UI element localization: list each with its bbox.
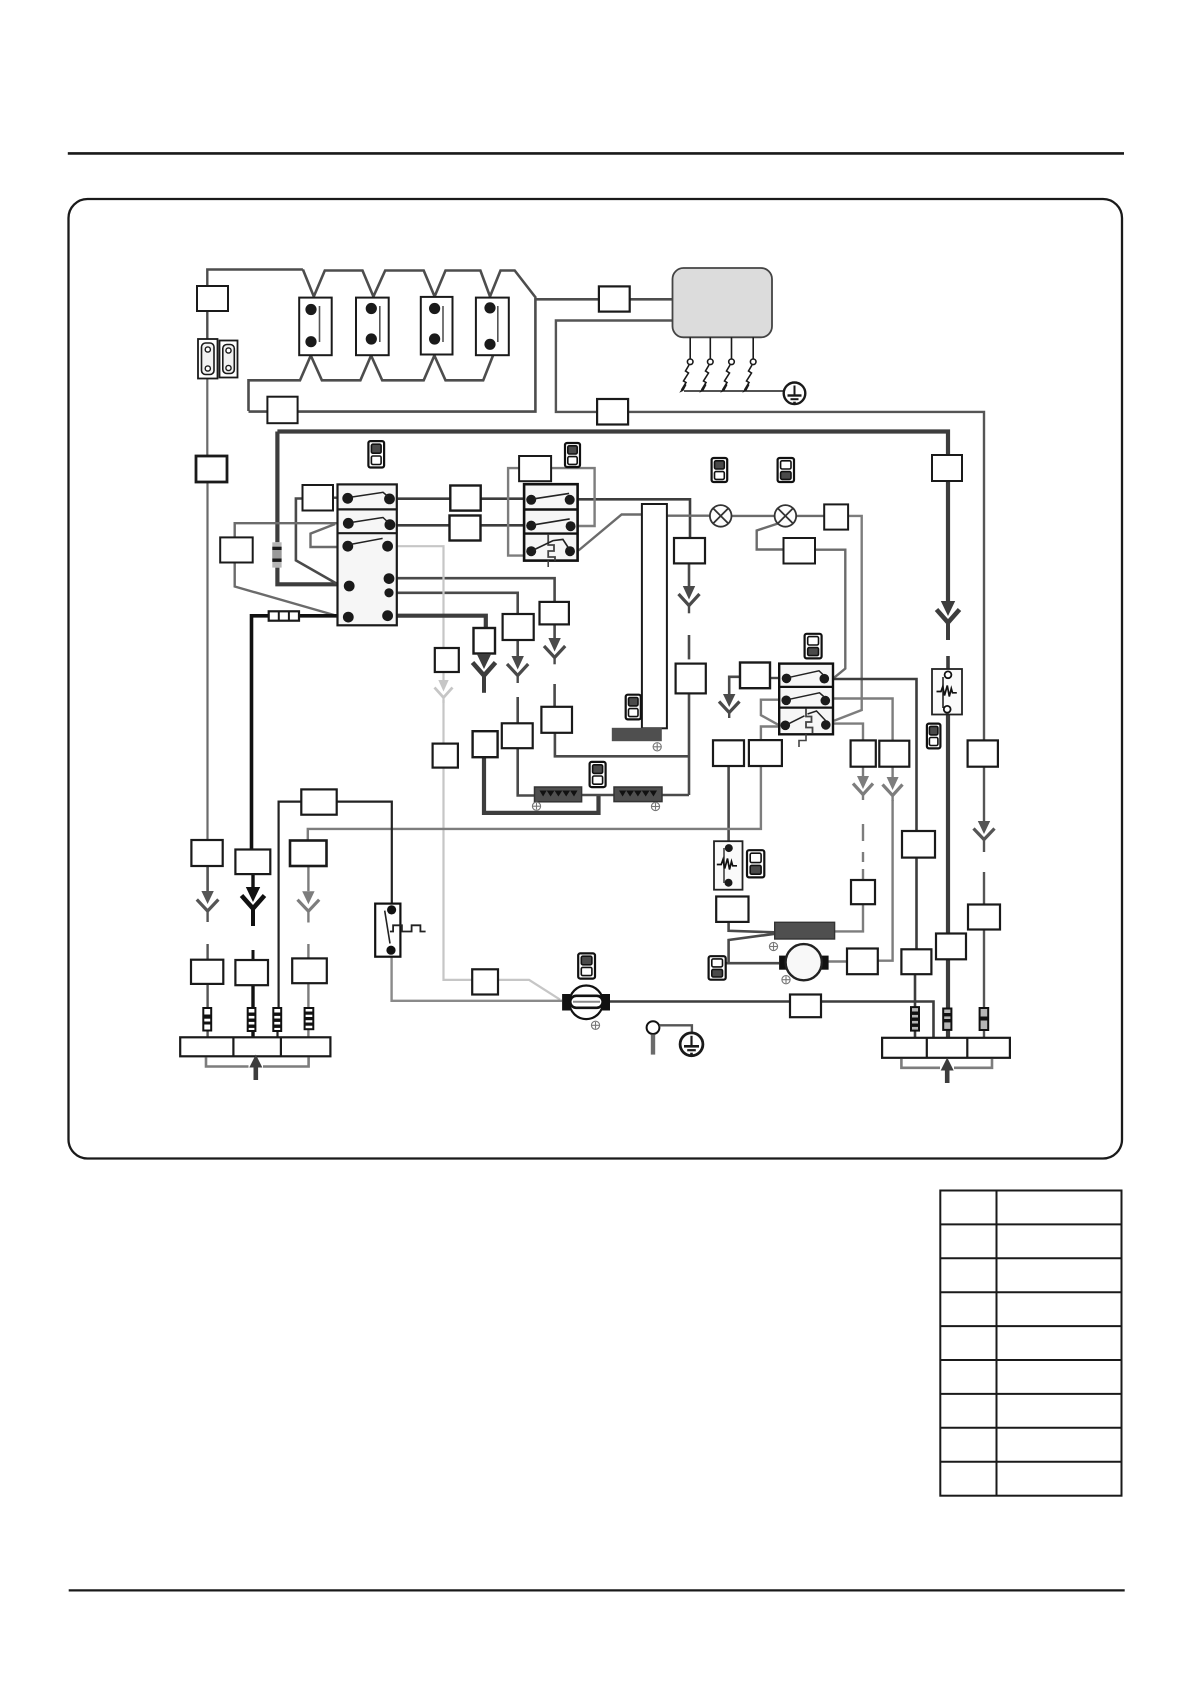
plug icon P11: [578, 953, 595, 978]
relay R1 main block: [338, 484, 397, 625]
wire grey feed relay1 row2: [235, 523, 338, 616]
wire thick down to arrow: [946, 481, 950, 601]
arrow connector light grey: [435, 680, 453, 703]
fuse F2: [248, 1008, 256, 1031]
arrow connector col2 thick black: [242, 887, 265, 926]
connector box light grey upper: [435, 648, 459, 672]
connector box A relay1-relay2 row1: [450, 486, 480, 511]
wire filament box down to heater2: [688, 563, 691, 586]
heater element H2: [614, 787, 662, 802]
connector box ECU pin2 line: [597, 399, 628, 425]
connector box C1 top-left: [197, 286, 228, 311]
arrow connector x554: [544, 638, 565, 664]
wire lamp line across: [666, 515, 710, 517]
fuse plate pair: [198, 339, 238, 379]
ground screw sender: [591, 1021, 600, 1029]
plug icon P7: [590, 762, 606, 787]
ECU injector pins with spark arrows: [682, 337, 784, 391]
connector box left of resistor: [220, 537, 253, 562]
connector box x689 lower: [676, 664, 706, 694]
wire glow chain bottom zigzag: [249, 355, 494, 411]
ground screw heater1: [532, 802, 541, 810]
bracket under right fuse block: [901, 1059, 992, 1068]
connector box ILL: [824, 504, 848, 529]
top rule: [68, 152, 1124, 155]
wire heater link: [582, 794, 614, 797]
wire relay2 row2 feed: [397, 524, 450, 527]
connector box x554 upper: [540, 602, 569, 625]
connector box light grey bottom: [472, 969, 498, 994]
arrow connector x892: [883, 777, 903, 801]
wire relay3 row3-right to glow indicator: [834, 724, 864, 741]
battery column3 box lower: [292, 958, 327, 983]
connector box ECU line top: [599, 286, 630, 311]
fuse block right: [882, 1038, 1010, 1058]
wire relay2 row1 out to lamp filament box: [578, 499, 690, 538]
wire kickdown black net: [279, 802, 302, 1008]
wire col1 battery arrow path: [206, 866, 209, 891]
wire relay1 x517 net: [397, 593, 518, 614]
plug icon P4: [778, 458, 794, 482]
wire relay3 coil net left: [729, 677, 740, 694]
connector box x984 lower: [968, 905, 1000, 930]
big arrow connector x948: [937, 601, 960, 640]
connector box x863: [851, 740, 876, 766]
ground screw under dark bar: [653, 743, 661, 751]
motor M: [779, 944, 829, 980]
resistor striped: [272, 542, 281, 567]
battery column1 box lower: [191, 960, 223, 984]
relay R2 block: [524, 484, 578, 567]
plug icon P5: [626, 695, 641, 720]
earth ground symbol near ECU: [784, 383, 806, 405]
fuse F3: [273, 1008, 281, 1031]
wire relay3 row2-right to motor: [833, 699, 893, 741]
connector box x916 mid: [902, 831, 935, 858]
wire long left vertical to battery area: [206, 482, 208, 840]
wire box5 stub to relay1: [333, 497, 338, 499]
wire ECU pin2 net lower: [983, 767, 985, 821]
wire black fusible link net: [299, 614, 338, 618]
wire col3 arrow path: [307, 866, 309, 891]
connector box x761: [749, 740, 782, 766]
glow plug module M3: [421, 297, 453, 355]
fuse F6: [943, 1009, 951, 1030]
connector box relay3 coil: [740, 663, 770, 689]
connector box x554 lower: [541, 707, 572, 733]
kick-down switch: [375, 904, 425, 957]
fusible link component: [269, 611, 299, 620]
wire relay1 light grey net: [397, 546, 444, 648]
wire relay1 thick starter net: [397, 616, 486, 628]
connector box x892: [879, 741, 909, 767]
diagram border frame: [69, 199, 1123, 1159]
wire panel box to relay3 row1: [815, 550, 845, 678]
battery column2 box lower: [235, 960, 268, 985]
arrow connector x729: [719, 694, 740, 718]
battery arrow up right: [941, 1058, 954, 1084]
battery column2 box upper: [235, 850, 270, 875]
wire relay2 row3 to lamp line diagonal: [579, 515, 642, 551]
fuse F5: [911, 1007, 919, 1031]
ECU module grey box: [673, 268, 773, 337]
dark bar under tall column: [612, 728, 662, 741]
connector box x517 upper: [503, 614, 534, 640]
connector box on R1 coil feed: [303, 485, 334, 511]
connector box C2 thick: [196, 456, 227, 482]
ground screw glow bar: [769, 942, 778, 950]
lamp indicator 2: [775, 505, 797, 527]
connector box light grey lower: [433, 744, 458, 768]
relay R3 block: [779, 664, 833, 747]
connector box sender line: [790, 995, 821, 1018]
lamp indicator 1: [710, 505, 732, 527]
plug icon P6: [805, 634, 822, 659]
fuse F7: [980, 1008, 989, 1030]
connector box below surge2: [716, 897, 748, 922]
battery column3 box upper: [290, 841, 327, 867]
surge absorber S2: [714, 841, 743, 890]
wire relay2 row1 feed: [397, 497, 451, 500]
arrow connector x689: [679, 586, 700, 613]
wire relay2 grey loop: [508, 468, 594, 555]
connector box x916 lower: [901, 949, 931, 974]
battery arrow up left: [249, 1055, 262, 1081]
fuel sender unit: [562, 986, 610, 1020]
body earth lever: [647, 1021, 692, 1054]
ground screw motor: [782, 976, 791, 984]
fuse block left: [180, 1037, 330, 1056]
wire relay3 row2-left row3-left grey feed: [761, 700, 779, 726]
wire thick ignition feed horizontal: [277, 432, 948, 456]
wire ECU pin2 net: [556, 321, 984, 741]
connector box B relay1-relay2 row2: [450, 516, 481, 541]
battery column1 box upper: [191, 840, 222, 866]
connector box x729: [713, 740, 744, 766]
connector box thick starter lower: [473, 731, 498, 757]
connector box above relay2: [519, 456, 551, 481]
table: [940, 1191, 1121, 1496]
fuse F1: [203, 1008, 211, 1031]
connector box B thick feed: [932, 455, 962, 481]
wire fuse block to battery box B2: [206, 379, 208, 457]
arrow connector thick starter: [473, 654, 496, 693]
connector box x517 lower: [502, 723, 533, 748]
connector box on ECU pin1 line: [267, 397, 297, 424]
glow plug module M1: [299, 298, 332, 356]
wire relay3 row1-right long: [833, 679, 917, 831]
plug icon P3: [712, 458, 728, 482]
arrow connector col3: [298, 891, 320, 922]
tall column component: [642, 504, 667, 728]
connector box kickdown feed: [301, 789, 336, 814]
wire glow chain top zigzag: [303, 270, 536, 299]
connector box x984 mid: [968, 740, 998, 766]
glow plug module M4: [476, 298, 509, 356]
arrow connector x984: [974, 821, 995, 852]
glow indicator dark bar: [775, 922, 835, 939]
bracket under left fuse block: [206, 1058, 309, 1067]
wire relay1 x555 net: [397, 578, 555, 602]
connector box lamp branch: [784, 538, 816, 564]
arrow connector x517: [507, 656, 528, 683]
glow plug module M2: [356, 298, 389, 356]
plug icon P9: [747, 850, 764, 877]
connector box x948 lower: [936, 934, 966, 960]
wire thick resistor branch: [275, 432, 279, 543]
fuse F4: [305, 1008, 314, 1029]
wire lamp2 branch to panel box: [757, 524, 784, 550]
surge absorber S1: [932, 669, 962, 715]
plug icon P10: [709, 956, 726, 980]
wire kickdown switch to sender: [392, 957, 562, 1001]
earth ground symbol bottom: [680, 1033, 703, 1056]
wire box5 to relay1 coil diagonal: [296, 499, 338, 585]
arrow connector col1: [197, 891, 219, 922]
connector box x863 mid: [851, 880, 875, 904]
wire sender to fuse box right: [610, 1000, 790, 1003]
plug icon P1: [368, 441, 384, 467]
ground screw heater2: [651, 802, 660, 810]
wire jog relay1 row2 to row3: [311, 524, 338, 547]
connector box thick starter upper: [474, 628, 496, 654]
wire ILL box to down right: [834, 516, 862, 721]
connector box filament line: [674, 538, 705, 563]
wire ECU pin1 net to chain: [249, 299, 673, 411]
arrow connector x863: [853, 776, 873, 800]
connector box motor right: [847, 949, 878, 975]
wire box to relay3 row1 stub: [770, 677, 779, 679]
wire battery feed top-left to glow chain: [206, 311, 208, 339]
bottom rule: [69, 1589, 1125, 1591]
plug icon P2: [565, 443, 580, 467]
heater element H1: [535, 787, 582, 802]
plug icon P8: [927, 724, 941, 749]
